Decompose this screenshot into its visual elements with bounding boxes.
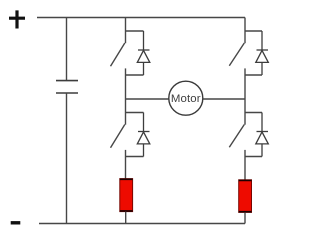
motor M1 bbox=[169, 81, 203, 115]
diode D2 bbox=[256, 31, 268, 75]
switch Q3 blade bbox=[111, 125, 125, 148]
wire R2 to bottom rail bbox=[244, 212, 246, 223]
wire motor right bbox=[203, 98, 245, 100]
svg-text:Motor: Motor bbox=[171, 93, 201, 105]
wire Q1 bottom bracket bbox=[126, 74, 144, 76]
wire Q4 emitter lead bbox=[244, 150, 246, 180]
switch Q4 blade bbox=[229, 125, 244, 148]
wire Q1 collector lead bbox=[125, 18, 127, 44]
plus terminal bbox=[9, 10, 25, 28]
wire Q1 emitter lead / node A bbox=[125, 68, 127, 99]
wire capacitor branch bottom bbox=[66, 93, 68, 224]
top rail wire bbox=[37, 17, 245, 19]
wire Q3 emitter lead bbox=[125, 150, 127, 179]
wire capacitor branch top bbox=[66, 18, 68, 81]
wire Q4 collector lead bbox=[244, 99, 246, 125]
diode D3 bbox=[137, 113, 150, 157]
wire motor left bbox=[126, 98, 169, 100]
wire Q4 top bracket bbox=[245, 112, 262, 114]
wire right column drop bbox=[244, 18, 246, 44]
bottom rail wire bbox=[39, 223, 245, 225]
minus terminal bbox=[11, 221, 21, 224]
wire Q1 top bracket bbox=[126, 30, 144, 32]
wire Q3 bottom bracket bbox=[126, 156, 144, 158]
switch Q1 blade bbox=[111, 43, 125, 66]
wire Q4 bottom bracket bbox=[245, 156, 262, 158]
switch Q2 blade bbox=[229, 43, 244, 66]
wire Q2 top bracket bbox=[245, 30, 262, 32]
wire Q3 top bracket bbox=[126, 112, 144, 114]
wire Q3 collector lead bbox=[125, 99, 127, 125]
capacitor C1 bbox=[56, 81, 78, 93]
resistor R1 bbox=[120, 179, 133, 212]
diode D4 bbox=[256, 113, 268, 157]
diode D1 bbox=[137, 31, 150, 75]
wire Q2 emitter lead / node B bbox=[244, 68, 246, 99]
resistor R2 bbox=[239, 180, 252, 213]
wire R1 to bottom rail bbox=[125, 212, 127, 224]
wire Q2 bottom bracket bbox=[245, 74, 262, 76]
